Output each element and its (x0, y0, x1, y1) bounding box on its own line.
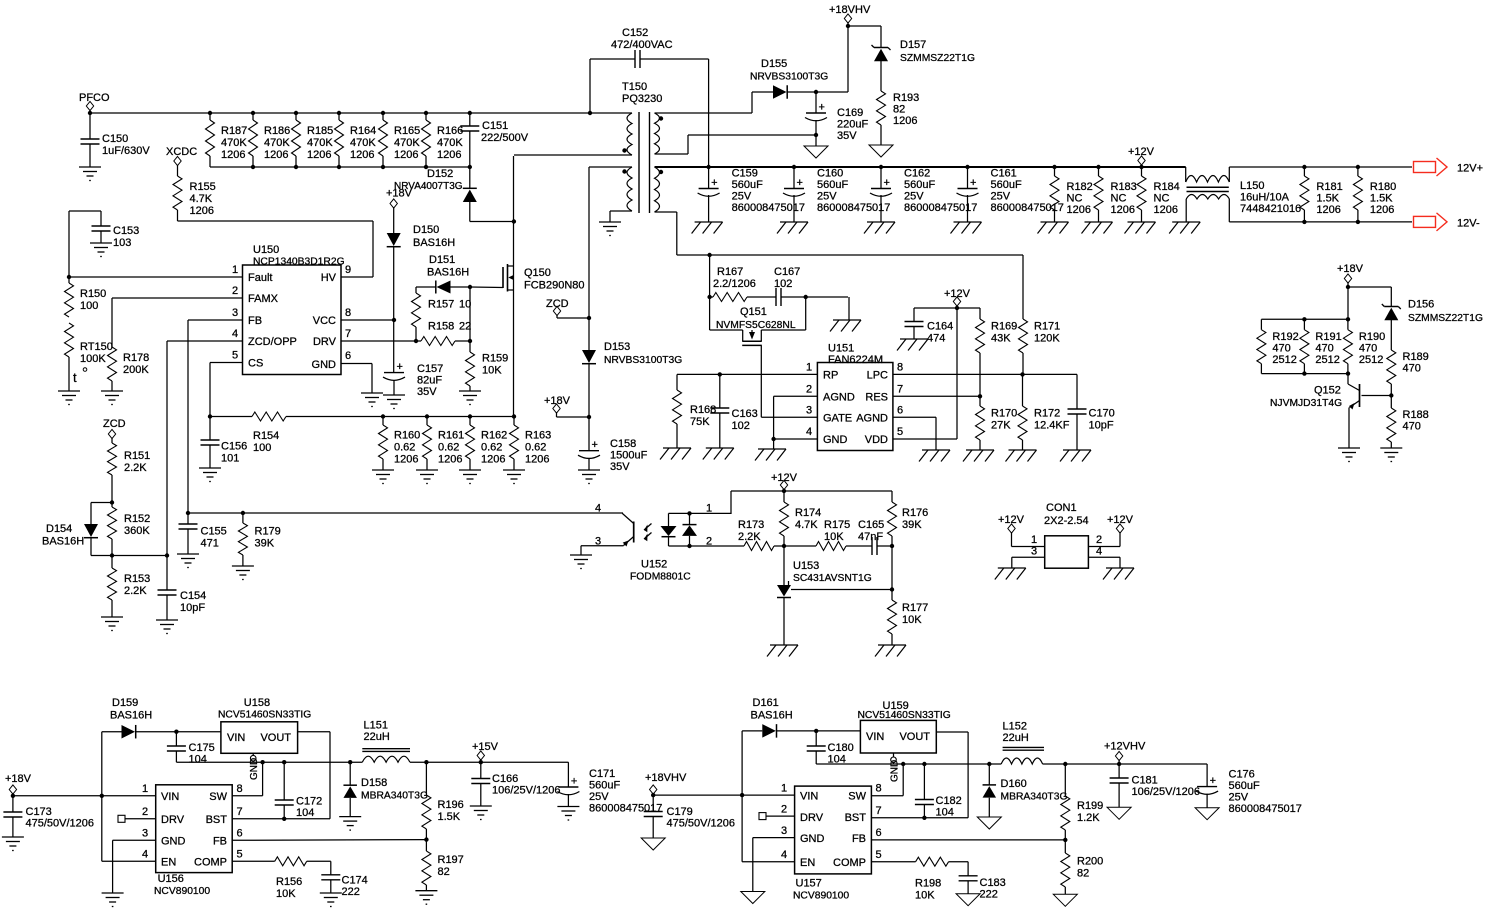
svg-text:2512: 2512 (1359, 354, 1383, 366)
svg-text:R156: R156 (276, 876, 302, 888)
svg-text:2: 2 (142, 806, 148, 818)
svg-text:C170: C170 (1089, 408, 1115, 420)
svg-text:10K: 10K (902, 614, 922, 626)
svg-text:1206: 1206 (350, 149, 374, 161)
svg-text:R177: R177 (902, 602, 928, 614)
svg-text:R190: R190 (1359, 331, 1385, 343)
svg-text:R178: R178 (123, 352, 149, 364)
svg-text:FODM8801C: FODM8801C (630, 572, 691, 583)
svg-text:39K: 39K (902, 519, 922, 531)
svg-text:R183: R183 (1111, 181, 1137, 193)
svg-text:Q152: Q152 (1314, 385, 1341, 397)
svg-text:C151: C151 (482, 120, 508, 132)
svg-text:Q151: Q151 (740, 306, 767, 318)
svg-text:GND: GND (249, 758, 260, 780)
svg-text:NCV51460SN33TIG: NCV51460SN33TIG (858, 710, 951, 721)
svg-text:U156: U156 (158, 873, 184, 885)
svg-text:2.2/1206: 2.2/1206 (713, 278, 756, 290)
svg-text:D161: D161 (753, 697, 779, 709)
svg-text:C180: C180 (828, 742, 854, 754)
svg-text:R200: R200 (1077, 856, 1103, 868)
svg-text:C181: C181 (1132, 775, 1158, 787)
svg-text:BAS16H: BAS16H (110, 710, 152, 722)
svg-text:C163: C163 (732, 408, 758, 420)
svg-text:PQ3230: PQ3230 (622, 93, 662, 105)
svg-text:6: 6 (237, 828, 243, 840)
svg-text:SZMMSZ22T1G: SZMMSZ22T1G (900, 53, 975, 64)
svg-text:R175: R175 (824, 519, 850, 531)
svg-text:1206: 1206 (264, 149, 288, 161)
svg-text:560uF: 560uF (904, 179, 935, 191)
svg-text:47nF: 47nF (858, 531, 883, 543)
svg-text:R169: R169 (991, 321, 1017, 333)
svg-text:R187: R187 (221, 125, 247, 137)
svg-text:AGND: AGND (823, 392, 855, 404)
svg-text:472/400VAC: 472/400VAC (611, 39, 673, 51)
svg-text:U151: U151 (828, 343, 854, 355)
svg-text:+18V: +18V (5, 773, 32, 785)
svg-text:1206: 1206 (893, 115, 917, 127)
svg-text:EN: EN (161, 857, 176, 869)
svg-text:104: 104 (936, 807, 954, 819)
svg-text:25V: 25V (1229, 792, 1249, 804)
svg-text:GND: GND (823, 434, 848, 446)
svg-text:R150: R150 (80, 288, 106, 300)
svg-text:102: 102 (774, 278, 792, 290)
svg-text:82: 82 (1077, 868, 1089, 880)
svg-text:10K: 10K (824, 531, 844, 543)
svg-text:VDD: VDD (865, 434, 888, 446)
svg-text:U153: U153 (793, 560, 819, 572)
svg-text:22uH: 22uH (1003, 732, 1029, 744)
svg-text:R172: R172 (1034, 408, 1060, 420)
svg-text:0.62: 0.62 (394, 442, 415, 454)
svg-text:C152: C152 (622, 27, 648, 39)
svg-text:5: 5 (876, 849, 882, 861)
svg-text:R155: R155 (190, 181, 216, 193)
svg-text:470: 470 (1403, 421, 1421, 433)
svg-text:475/50V/1206: 475/50V/1206 (667, 818, 736, 830)
svg-text:2: 2 (806, 384, 812, 396)
svg-text:+12VHV: +12VHV (1104, 741, 1146, 753)
svg-text:+: + (1210, 775, 1216, 787)
svg-text:NC: NC (1111, 193, 1127, 205)
svg-text:100K: 100K (80, 353, 106, 365)
svg-text:+: + (397, 361, 403, 373)
svg-text:1: 1 (232, 264, 238, 276)
svg-text:PFCO: PFCO (79, 92, 110, 104)
svg-text:4: 4 (232, 328, 238, 340)
svg-text:U150: U150 (253, 244, 279, 256)
svg-text:+: + (970, 177, 976, 189)
svg-text:+: + (592, 439, 598, 451)
svg-text:R168: R168 (690, 404, 716, 416)
svg-text:560uF: 560uF (589, 780, 620, 792)
svg-text:1206: 1206 (1111, 204, 1135, 216)
svg-text:8: 8 (345, 307, 351, 319)
svg-text:HV: HV (321, 272, 337, 284)
svg-text:1206: 1206 (525, 454, 549, 466)
svg-text:R184: R184 (1154, 181, 1180, 193)
svg-text:R162: R162 (481, 430, 507, 442)
svg-text:R160: R160 (394, 430, 420, 442)
svg-text:470K: 470K (221, 137, 247, 149)
svg-text:C173: C173 (26, 806, 52, 818)
svg-text:3: 3 (781, 825, 787, 837)
svg-text:EN: EN (800, 857, 815, 869)
svg-text:560uF: 560uF (817, 179, 848, 191)
svg-text:1: 1 (781, 783, 787, 795)
svg-text:860008475017: 860008475017 (589, 803, 662, 815)
svg-text:C158: C158 (610, 438, 636, 450)
svg-text:474: 474 (927, 333, 945, 345)
svg-text:+: + (884, 177, 890, 189)
svg-text:C159: C159 (732, 168, 758, 180)
svg-text:7: 7 (345, 328, 351, 340)
svg-text:R181: R181 (1316, 181, 1342, 193)
svg-text:NCP1340B3D1R2G: NCP1340B3D1R2G (253, 257, 345, 268)
svg-text:NRVBS3100T3G: NRVBS3100T3G (750, 72, 828, 83)
svg-text:L152: L152 (1003, 721, 1027, 733)
svg-text:CON1: CON1 (1046, 502, 1077, 514)
svg-text:1206: 1206 (190, 205, 214, 217)
svg-text:R166: R166 (437, 125, 463, 137)
svg-text:C155: C155 (201, 526, 227, 538)
svg-text:ZCD: ZCD (103, 418, 126, 430)
svg-text:+: + (797, 177, 803, 189)
svg-text:+: + (711, 177, 717, 189)
svg-text:4: 4 (595, 503, 601, 515)
svg-text:R152: R152 (124, 513, 150, 525)
svg-text:1206: 1206 (1370, 204, 1394, 216)
svg-text:101: 101 (221, 453, 239, 465)
svg-text:U157: U157 (796, 878, 822, 890)
svg-text:R196: R196 (438, 799, 464, 811)
svg-text:D152: D152 (427, 168, 453, 180)
svg-text:1.5K: 1.5K (1370, 193, 1393, 205)
svg-text:D158: D158 (361, 777, 387, 789)
svg-text:NVMFS5C628NL: NVMFS5C628NL (716, 320, 796, 331)
svg-text:CS: CS (248, 358, 263, 370)
svg-text:VIN: VIN (866, 731, 884, 743)
svg-text:1206: 1206 (1316, 204, 1340, 216)
svg-text:SC431AVSNT1G: SC431AVSNT1G (793, 573, 872, 584)
svg-text:R179: R179 (255, 526, 281, 538)
svg-text:25V: 25V (904, 191, 924, 203)
svg-text:R158: R158 (428, 321, 454, 333)
svg-text:BAS16H: BAS16H (42, 536, 84, 548)
svg-text:C167: C167 (774, 266, 800, 278)
svg-text:43K: 43K (991, 333, 1011, 345)
svg-text:COMP: COMP (833, 857, 866, 869)
svg-text:C161: C161 (991, 168, 1017, 180)
svg-text:R176: R176 (902, 507, 928, 519)
svg-text:U158: U158 (244, 697, 270, 709)
svg-text:12.4KF: 12.4KF (1034, 420, 1070, 432)
svg-text:2512: 2512 (1315, 354, 1339, 366)
svg-text:FAN6224M: FAN6224M (828, 354, 883, 366)
svg-text:R191: R191 (1315, 331, 1341, 343)
svg-text:C156: C156 (221, 441, 247, 453)
svg-text:1206: 1206 (221, 149, 245, 161)
svg-text:C169: C169 (837, 107, 863, 119)
svg-text:25V: 25V (991, 191, 1011, 203)
svg-text:82: 82 (438, 866, 450, 878)
svg-text:104: 104 (296, 807, 314, 819)
svg-text:2.2K: 2.2K (738, 531, 761, 543)
svg-text:470: 470 (1403, 363, 1421, 375)
svg-text:470K: 470K (350, 137, 376, 149)
svg-text:222: 222 (342, 886, 360, 898)
svg-text:106/25V/1206: 106/25V/1206 (492, 785, 561, 797)
svg-text:120K: 120K (1034, 333, 1060, 345)
svg-text:SW: SW (848, 791, 866, 803)
svg-text:C172: C172 (296, 796, 322, 808)
svg-text:R154: R154 (253, 430, 279, 442)
svg-text:R185: R185 (307, 125, 333, 137)
svg-text:470: 470 (1315, 343, 1333, 355)
svg-text:6: 6 (897, 405, 903, 417)
svg-text:1: 1 (1031, 534, 1037, 546)
svg-text:2: 2 (781, 804, 787, 816)
svg-text:+: + (571, 776, 577, 788)
svg-text:7: 7 (897, 384, 903, 396)
svg-text:27K: 27K (991, 420, 1011, 432)
svg-text:560uF: 560uF (991, 179, 1022, 191)
svg-text:100: 100 (80, 300, 98, 312)
svg-text:R157: R157 (428, 299, 454, 311)
svg-text:RP: RP (823, 370, 838, 382)
svg-text:1.5K: 1.5K (1316, 193, 1339, 205)
svg-text:D151: D151 (429, 254, 455, 266)
svg-text:D153: D153 (604, 341, 630, 353)
svg-text:XCDC: XCDC (166, 146, 197, 158)
svg-text:BST: BST (845, 812, 867, 824)
svg-text:6: 6 (345, 350, 351, 362)
svg-text:C182: C182 (936, 795, 962, 807)
svg-text:FAMX: FAMX (248, 293, 279, 305)
svg-text:10pF: 10pF (180, 602, 205, 614)
svg-text:104: 104 (189, 754, 207, 766)
svg-text:1206: 1206 (437, 149, 461, 161)
svg-text:1206: 1206 (1154, 204, 1178, 216)
svg-text:C164: C164 (927, 321, 953, 333)
svg-text:+: + (819, 102, 825, 114)
svg-text:FB: FB (213, 836, 227, 848)
svg-text:25V: 25V (732, 191, 752, 203)
svg-text:10K: 10K (915, 890, 935, 902)
svg-text:3: 3 (142, 828, 148, 840)
svg-text:1500uF: 1500uF (610, 450, 648, 462)
svg-text:t: t (73, 370, 77, 385)
svg-text:L150: L150 (1240, 180, 1264, 192)
svg-text:4: 4 (806, 426, 812, 438)
svg-text:8: 8 (237, 783, 243, 795)
svg-text:2: 2 (232, 285, 238, 297)
svg-text:VIN: VIN (800, 791, 818, 803)
svg-text:C179: C179 (667, 806, 693, 818)
svg-text:16uH/10A: 16uH/10A (1240, 192, 1290, 204)
svg-text:9: 9 (345, 264, 351, 276)
svg-text:R174: R174 (795, 507, 821, 519)
svg-text:DRV: DRV (313, 336, 337, 348)
svg-text:2.2K: 2.2K (124, 462, 147, 474)
svg-text:R186: R186 (264, 125, 290, 137)
svg-text:C154: C154 (180, 590, 206, 602)
svg-text:0.62: 0.62 (525, 442, 546, 454)
svg-text:R199: R199 (1077, 800, 1103, 812)
svg-text:D155: D155 (761, 58, 787, 70)
svg-text:1uF/630V: 1uF/630V (102, 145, 150, 157)
svg-text:R171: R171 (1034, 321, 1060, 333)
svg-text:3: 3 (232, 307, 238, 319)
svg-text:D157: D157 (900, 39, 926, 51)
svg-text:3: 3 (595, 536, 601, 548)
svg-text:NCV51460SN33TIG: NCV51460SN33TIG (218, 710, 311, 721)
svg-text:FB: FB (852, 833, 866, 845)
svg-text:C166: C166 (492, 773, 518, 785)
svg-text:7448421016: 7448421016 (1240, 203, 1301, 215)
svg-text:D150: D150 (413, 224, 439, 236)
svg-text:5: 5 (897, 426, 903, 438)
svg-text:8: 8 (876, 783, 882, 795)
svg-text:35V: 35V (417, 386, 437, 398)
svg-text:NCV890100: NCV890100 (154, 886, 210, 897)
svg-text:3: 3 (1031, 546, 1037, 558)
svg-text:10pF: 10pF (1089, 420, 1114, 432)
svg-text:1206: 1206 (394, 149, 418, 161)
svg-text:ZCD/OPP: ZCD/OPP (248, 336, 297, 348)
svg-text:DRV: DRV (800, 812, 824, 824)
svg-text:+15V: +15V (472, 741, 499, 753)
svg-text:25V: 25V (589, 791, 609, 803)
svg-text:D156: D156 (1408, 299, 1434, 311)
svg-text:BAS16H: BAS16H (413, 237, 455, 249)
svg-text:MBRA340T3G: MBRA340T3G (1001, 792, 1068, 803)
svg-text:NC: NC (1154, 193, 1170, 205)
svg-text:R153: R153 (124, 573, 150, 585)
svg-text:Fault: Fault (248, 272, 272, 284)
svg-text:C157: C157 (417, 363, 443, 375)
svg-text:RES: RES (865, 392, 888, 404)
svg-text:C175: C175 (189, 742, 215, 754)
svg-text:SW: SW (209, 791, 227, 803)
svg-text:R151: R151 (124, 450, 150, 462)
svg-text:4.7K: 4.7K (795, 519, 818, 531)
svg-text:82uF: 82uF (417, 375, 442, 387)
svg-text:U152: U152 (641, 559, 667, 571)
svg-text:471: 471 (201, 538, 219, 550)
svg-text:C171: C171 (589, 768, 615, 780)
svg-text:2X2-2.54: 2X2-2.54 (1044, 515, 1089, 527)
svg-text:1.2K: 1.2K (1077, 812, 1100, 824)
svg-text:+18V: +18V (1337, 263, 1364, 275)
svg-text:222: 222 (980, 889, 998, 901)
svg-text:1.5K: 1.5K (438, 811, 461, 823)
svg-text:39K: 39K (255, 538, 275, 550)
svg-text:RT150: RT150 (80, 341, 113, 353)
svg-text:860008475017: 860008475017 (904, 202, 977, 214)
svg-text:R165: R165 (394, 125, 420, 137)
svg-text:BAS16H: BAS16H (751, 710, 793, 722)
svg-text:NJVMJD31T4G: NJVMJD31T4G (1270, 398, 1342, 409)
svg-text:R192: R192 (1272, 331, 1298, 343)
svg-text:22uH: 22uH (364, 731, 390, 743)
svg-text:103: 103 (113, 237, 131, 249)
svg-text:GND: GND (890, 760, 901, 782)
svg-text:FCB290N80: FCB290N80 (524, 280, 585, 292)
svg-text:MBRA340T3G: MBRA340T3G (361, 791, 428, 802)
svg-text:R182: R182 (1067, 181, 1093, 193)
svg-text:D160: D160 (1001, 778, 1027, 790)
svg-text:1206: 1206 (438, 454, 462, 466)
svg-text:C150: C150 (102, 133, 128, 145)
svg-text:360K: 360K (124, 525, 150, 537)
svg-text:R159: R159 (482, 353, 508, 365)
svg-text:T150: T150 (622, 81, 647, 93)
svg-text:R180: R180 (1370, 181, 1396, 193)
svg-text:R161: R161 (438, 430, 464, 442)
svg-text:R167: R167 (717, 266, 743, 278)
svg-text:35V: 35V (837, 130, 857, 142)
svg-text:R188: R188 (1403, 409, 1429, 421)
svg-text:R197: R197 (438, 854, 464, 866)
svg-text:BST: BST (206, 814, 228, 826)
svg-text:R164: R164 (350, 125, 376, 137)
svg-text:COMP: COMP (194, 857, 227, 869)
svg-text:VOUT: VOUT (260, 732, 291, 744)
svg-text:560uF: 560uF (1229, 780, 1260, 792)
svg-text:102: 102 (732, 420, 750, 432)
svg-text:470K: 470K (307, 137, 333, 149)
svg-text:NRVBS3100T3G: NRVBS3100T3G (604, 355, 682, 366)
svg-text:GND: GND (161, 836, 186, 848)
svg-text:+18VHV: +18VHV (645, 772, 687, 784)
svg-text:C174: C174 (342, 875, 368, 887)
svg-text:860008475017: 860008475017 (991, 202, 1064, 214)
svg-text:1: 1 (706, 503, 712, 515)
svg-text:470: 470 (1272, 343, 1290, 355)
svg-text:8: 8 (897, 362, 903, 374)
svg-text:R189: R189 (1403, 351, 1429, 363)
svg-text:C165: C165 (858, 519, 884, 531)
svg-text:4: 4 (781, 849, 787, 861)
svg-text:SZMMSZ22T1G: SZMMSZ22T1G (1408, 313, 1483, 324)
svg-text:NCV890100: NCV890100 (793, 891, 849, 902)
svg-text:AGND: AGND (856, 413, 888, 425)
svg-text:C183: C183 (980, 877, 1006, 889)
svg-text:2: 2 (1096, 534, 1102, 546)
svg-text:R193: R193 (893, 92, 919, 104)
svg-text:0.62: 0.62 (481, 442, 502, 454)
svg-text:C162: C162 (904, 168, 930, 180)
svg-text:BAS16H: BAS16H (427, 267, 469, 279)
svg-text:7: 7 (876, 805, 882, 817)
svg-text:FB: FB (248, 315, 262, 327)
svg-text:220uF: 220uF (837, 119, 868, 131)
svg-text:R163: R163 (525, 430, 551, 442)
svg-text:10K: 10K (482, 365, 502, 377)
svg-text:C153: C153 (113, 225, 139, 237)
svg-text:C176: C176 (1229, 769, 1255, 781)
svg-text:1206: 1206 (307, 149, 331, 161)
svg-text:106/25V/1206: 106/25V/1206 (1132, 786, 1201, 798)
svg-text:L151: L151 (364, 720, 388, 732)
svg-text:DRV: DRV (161, 814, 185, 826)
svg-text:GATE: GATE (823, 413, 852, 425)
svg-text:LPC: LPC (867, 370, 888, 382)
svg-text:GND: GND (800, 833, 825, 845)
